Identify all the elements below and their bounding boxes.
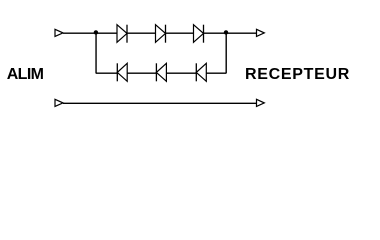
diode D5 (lower branch, pointing left) xyxy=(156,63,166,81)
connector arrow: RECEPTEUR return (bottom right) xyxy=(257,99,265,106)
wire: left vertical branch drop at node A xyxy=(95,33,97,74)
svg-text:ALIM: ALIM xyxy=(7,66,44,83)
node B: right junction dot xyxy=(224,30,228,34)
node A: left junction dot xyxy=(94,30,98,34)
diode D1 (top branch, pointing right) xyxy=(117,25,127,43)
wire: bottom return line xyxy=(63,102,257,104)
diode D2 (top branch, pointing right) xyxy=(156,25,166,43)
connector arrow: ALIM return (bottom left) xyxy=(55,99,63,106)
diode D3 (top branch, pointing right) xyxy=(194,25,204,43)
wire: top rail from ALIM connector to RECEPTEUR connector xyxy=(63,32,257,34)
connector arrow: RECEPTEUR input (top right) xyxy=(257,29,265,36)
diode D6 (lower branch, pointing left) xyxy=(196,63,206,81)
wire: lower parallel branch rail xyxy=(96,72,226,74)
diode D4 (lower branch, pointing left) xyxy=(117,63,127,81)
wire: right vertical branch rise at node B xyxy=(225,33,227,74)
connector arrow: ALIM output (top left) xyxy=(55,29,63,36)
svg-text:RECEPTEUR: RECEPTEUR xyxy=(245,66,350,83)
